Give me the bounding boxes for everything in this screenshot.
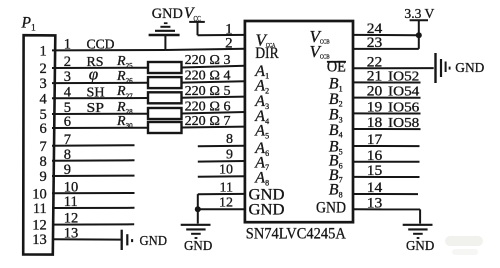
resistor R25 (220 ohm, P1.2 to U1.3)	[116, 52, 245, 73]
svg-text:220 Ω 5: 220 Ω 5	[185, 83, 231, 98]
svg-text:4: 4	[40, 91, 48, 107]
svg-text:15: 15	[367, 163, 383, 179]
U1 pin label A2	[254, 78, 269, 96]
svg-text:8: 8	[40, 154, 47, 170]
svg-text:R26: R26	[116, 69, 133, 85]
svg-text:220 Ω 7: 220 Ω 7	[185, 113, 231, 128]
U1 pin 1 number	[225, 21, 233, 37]
label 3.3 V	[404, 7, 434, 22]
svg-text:9: 9	[40, 169, 47, 185]
label GND (P1 pin 13)	[140, 234, 168, 249]
U1 pin label GND (pin 12)	[249, 202, 285, 219]
U1 pin label B8	[329, 182, 343, 200]
resistor R28 (220 ohm, P1.5 to U1.6)	[116, 98, 245, 119]
svg-text:R27: R27	[116, 84, 133, 100]
U1 pin label VCCB (pin 23)	[310, 42, 330, 61]
ground (U1 pin 22 OE)	[436, 53, 450, 83]
power VCC symbol	[189, 22, 205, 35]
U1 pin label VCCB (pin 24)	[310, 27, 330, 46]
wire U1 pin 15 stub (right)	[353, 163, 420, 179]
wire U1 pin 13 stub (right)	[353, 195, 420, 211]
wire U1 pin 11 stub	[198, 180, 245, 195]
U1 pin label B7	[329, 167, 343, 185]
svg-text:SH: SH	[87, 85, 105, 100]
wire U1 pin 19 stub (right)	[353, 100, 421, 116]
U1 pin label B5	[329, 139, 343, 157]
svg-text:12: 12	[219, 196, 233, 211]
wire P1 pin 10	[32, 179, 134, 202]
svg-text:IO56: IO56	[388, 101, 419, 116]
resistor R26 (220 ohm, P1.3 to U1.4)	[116, 68, 245, 89]
wire P1 pin 2	[40, 54, 148, 77]
svg-text:R30: R30	[116, 114, 133, 130]
wire P1 pin 3	[40, 65, 148, 93]
svg-text:CCD: CCD	[87, 38, 115, 53]
svg-text:SP: SP	[87, 101, 105, 116]
svg-text:19: 19	[367, 100, 383, 116]
svg-text:6: 6	[64, 114, 71, 130]
wire P1 pin 4	[40, 84, 148, 107]
svg-text:13: 13	[367, 195, 383, 211]
U1 pin label A8	[254, 170, 269, 188]
svg-text:7: 7	[64, 132, 71, 148]
svg-text:18: 18	[367, 115, 383, 131]
wire U1 pins 11-12 to ground	[197, 194, 199, 224]
wire U1 pin 24 stub (right)	[353, 21, 419, 37]
svg-text:SN74LVC4245A: SN74LVC4245A	[246, 225, 346, 242]
svg-text:2: 2	[64, 54, 71, 70]
U1 pin label A5	[254, 123, 269, 141]
U1 pin label GND (pin 13 side)	[316, 200, 346, 217]
wire U1 pin 20 stub (right)	[353, 84, 421, 100]
svg-text:2: 2	[40, 61, 47, 77]
svg-text:9: 9	[64, 162, 71, 178]
label GND (U1 pin 13)	[406, 238, 434, 253]
wire U1 pin 14 stub (right)	[353, 180, 418, 196]
U1 pin label B1	[329, 76, 343, 94]
svg-text:VCC: VCC	[184, 5, 201, 23]
resistor R27 (220 ohm, P1.4 to U1.5)	[116, 83, 245, 103]
svg-text:13: 13	[64, 225, 79, 241]
U1 pin label B4	[329, 122, 343, 140]
svg-text:φ: φ	[89, 65, 98, 84]
wire U1 pin 21 stub (right)	[353, 69, 421, 85]
junction 3.3V / U1 pin 24	[416, 32, 422, 38]
svg-text:10: 10	[64, 179, 79, 195]
svg-text:7: 7	[40, 139, 47, 155]
U1 pin label OE (pin 22, active low)	[327, 58, 346, 75]
wire P1 pin 11	[33, 194, 135, 217]
svg-text:11: 11	[220, 180, 233, 195]
svg-text:6: 6	[40, 121, 47, 137]
svg-text:GND: GND	[184, 238, 212, 253]
wire VCC to U1 pin 1 (VCCA)	[198, 34, 245, 36]
wire P1 pin 7	[40, 132, 135, 155]
wire ground to U1 pin 2 (DIR)	[165, 49, 245, 50]
svg-text:10: 10	[32, 186, 47, 202]
svg-text:12: 12	[32, 218, 47, 234]
svg-text:11: 11	[33, 201, 47, 217]
U1 pin label A6	[254, 140, 269, 158]
ground (U1 pin 13)	[403, 225, 433, 238]
svg-text:GND: GND	[249, 202, 285, 219]
svg-text:GND: GND	[152, 6, 183, 22]
svg-text:8: 8	[64, 147, 71, 163]
svg-text:14: 14	[367, 180, 383, 196]
label GND (top)	[152, 6, 183, 22]
svg-text:GND: GND	[316, 200, 346, 217]
wire P1 pin 6	[40, 114, 148, 137]
U1 pin label A7	[254, 154, 269, 172]
U1 pin label A4	[254, 108, 269, 126]
svg-text:2: 2	[225, 36, 233, 52]
svg-text:GND: GND	[406, 238, 434, 253]
wire U1 pin 18 stub (right)	[353, 115, 421, 131]
U1 pin label GND (pin 11)	[249, 186, 285, 203]
svg-text:GND: GND	[140, 234, 168, 249]
wire 3.3V junction to U1 pin 23	[418, 35, 420, 49]
svg-text:OE: OE	[327, 58, 346, 75]
U1 pin label B2	[329, 91, 343, 109]
svg-text:A8: A8	[254, 170, 269, 188]
svg-text:12: 12	[64, 211, 79, 227]
wire P1 pin 5	[40, 100, 148, 123]
wire P1 pin 13	[32, 225, 120, 248]
svg-text:23: 23	[367, 35, 383, 51]
label GND (below U1)	[184, 238, 212, 253]
ground (top, CCD / DIR net)	[149, 23, 180, 50]
wire P1 pin 9	[40, 162, 135, 185]
svg-text:1: 1	[225, 21, 233, 37]
ground (P1 pin 13)	[122, 230, 132, 250]
wire U1 pin 9 stub	[198, 147, 245, 162]
wire P1 pin 12	[32, 211, 134, 234]
svg-text:10: 10	[219, 163, 233, 178]
svg-text:16: 16	[367, 148, 383, 164]
svg-text:11: 11	[64, 194, 78, 210]
label VCC	[184, 5, 201, 23]
svg-text:17: 17	[367, 132, 383, 148]
svg-text:3: 3	[64, 69, 71, 85]
U1 pin label DIR	[255, 45, 279, 62]
wire U1 pin 22 stub (right)	[353, 54, 434, 70]
resistor R30 (220 ohm, P1.6 to U1.7)	[116, 113, 245, 133]
U1 pin label B3	[329, 107, 343, 125]
wire U1 pin 13 to ground	[419, 209, 421, 223]
scan artifact smudge	[445, 236, 483, 255]
svg-text:220 Ω 4: 220 Ω 4	[185, 68, 231, 83]
svg-text:GND: GND	[455, 60, 484, 75]
wire U1 pin 8 stub	[198, 132, 245, 147]
U1 pin label A1	[254, 63, 269, 81]
connector P1 box	[23, 35, 55, 254]
svg-text:1: 1	[64, 37, 71, 53]
wire U1 pin 12 stub	[198, 196, 245, 211]
svg-text:220 Ω 6: 220 Ω 6	[185, 98, 231, 113]
svg-text:B4: B4	[329, 122, 343, 140]
wire U1 pin 17 stub (right)	[353, 132, 420, 148]
svg-text:IO52: IO52	[388, 70, 419, 85]
svg-text:DIR: DIR	[255, 45, 279, 62]
svg-text:3: 3	[40, 76, 47, 92]
label U1 part number SN74LVC4245A	[246, 225, 346, 242]
wire P1 pin 8	[40, 147, 135, 170]
wire U1 pin 16 stub (right)	[353, 148, 420, 164]
U1 pin label VCCA	[256, 30, 276, 49]
svg-text:20: 20	[367, 84, 383, 100]
svg-text:IO54: IO54	[388, 85, 419, 100]
svg-text:1: 1	[40, 43, 47, 59]
U1 pin 2 number	[225, 36, 233, 52]
connector P1 reference label	[21, 14, 36, 33]
svg-text:13: 13	[32, 232, 47, 248]
wire U1 pin 10 stub	[198, 163, 245, 178]
svg-text:IO58: IO58	[388, 116, 419, 131]
U1 pin label B6	[329, 153, 343, 171]
wire U1 pin 23 stub (right)	[353, 35, 419, 51]
IC U1 SN74LVC4245A box	[245, 21, 353, 222]
svg-text:8: 8	[226, 132, 233, 147]
svg-text:R25: R25	[116, 54, 133, 70]
svg-text:9: 9	[226, 147, 233, 162]
ground (below U1 pins 11/12)	[181, 225, 211, 238]
svg-text:4: 4	[64, 84, 72, 100]
svg-text:220 Ω 3: 220 Ω 3	[185, 52, 231, 67]
power 3.3V symbol	[410, 20, 428, 35]
svg-text:P1: P1	[21, 14, 36, 33]
svg-text:3.3 V: 3.3 V	[404, 7, 434, 22]
junction U1 pin 12 / ground	[195, 206, 201, 212]
svg-text:21: 21	[367, 69, 383, 85]
U1 pin label A3	[254, 93, 269, 111]
label GND (pin 22)	[455, 60, 484, 75]
wire P1 pin 1	[40, 37, 166, 60]
